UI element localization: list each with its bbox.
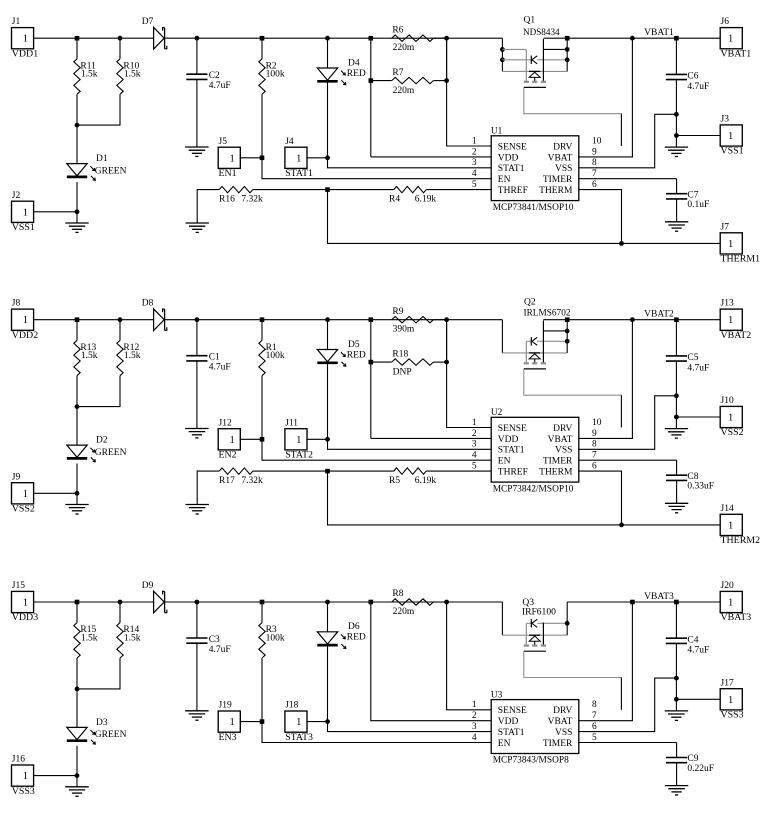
- junction: [674, 112, 679, 117]
- connector J19 (EN3): [218, 701, 262, 743]
- wire VSS from U1 pin 8: [579, 114, 677, 168]
- svg-text:4.7uF: 4.7uF: [687, 646, 709, 656]
- svg-text:1: 1: [23, 771, 28, 782]
- IC U1 MCP73841/MSOP10: [491, 127, 579, 213]
- wire SENSE: [447, 38, 492, 146]
- svg-text:1: 1: [296, 435, 301, 446]
- resistor R15 1.5k: [74, 602, 98, 689]
- U1 pin 4: [472, 169, 477, 179]
- svg-text:R5: R5: [389, 476, 400, 486]
- svg-text:J8: J8: [12, 299, 21, 309]
- resistor R10 1.5k: [77, 38, 141, 125]
- LED D1 GREEN: [67, 125, 127, 212]
- junction: [325, 187, 330, 192]
- connector J17 (VSS3): [676, 678, 743, 720]
- wire: [165, 37, 503, 39]
- svg-text:1: 1: [728, 34, 733, 45]
- svg-text:EN: EN: [498, 175, 511, 185]
- svg-text:THREF: THREF: [498, 186, 528, 196]
- ground: [185, 429, 208, 438]
- resistor R13 1.5k: [74, 320, 98, 407]
- svg-text:220m: 220m: [393, 607, 415, 617]
- junction: [444, 600, 449, 605]
- ground: [665, 699, 688, 720]
- svg-text:1: 1: [229, 435, 234, 446]
- svg-text:C7: C7: [687, 190, 698, 200]
- ground: [65, 493, 88, 514]
- capacitor C3 4.7uF: [186, 602, 230, 711]
- junction: [260, 437, 265, 442]
- svg-text:8: 8: [592, 700, 597, 710]
- svg-text:D5: D5: [348, 340, 360, 350]
- svg-text:J18: J18: [285, 701, 298, 711]
- svg-text:9: 9: [592, 429, 597, 439]
- svg-text:220m: 220m: [393, 86, 415, 96]
- svg-text:THERM: THERM: [539, 468, 573, 478]
- svg-text:100k: 100k: [266, 351, 285, 361]
- svg-text:10: 10: [592, 136, 602, 146]
- ground: [65, 212, 88, 233]
- svg-text:VBAT: VBAT: [548, 717, 573, 727]
- resistor R3 100k: [259, 602, 285, 722]
- U2 pin 5: [472, 462, 477, 472]
- svg-text:1: 1: [229, 153, 234, 164]
- U3 pin 1: [472, 700, 477, 710]
- svg-text:5: 5: [472, 462, 477, 472]
- svg-text:VSS2: VSS2: [721, 427, 744, 438]
- junction: [260, 600, 265, 605]
- junction: [369, 360, 374, 365]
- wire input bus: [77, 319, 154, 321]
- U2 pin 8: [592, 440, 597, 450]
- svg-text:C2: C2: [209, 71, 220, 81]
- svg-text:1.5k: 1.5k: [81, 351, 98, 361]
- wire EN: [262, 158, 491, 179]
- junction: [325, 155, 330, 160]
- U1 pin 8: [592, 158, 597, 168]
- svg-text:R4: R4: [389, 194, 400, 204]
- connector J11 (STAT2): [285, 418, 328, 460]
- U3 pin 5: [592, 733, 597, 743]
- svg-text:2: 2: [472, 429, 477, 439]
- svg-text:U2: U2: [491, 408, 503, 418]
- capacitor C6 4.7uF: [666, 38, 710, 135]
- svg-text:3: 3: [472, 158, 477, 168]
- wire DRV to U2 pin 10: [620, 395, 622, 427]
- svg-text:5: 5: [472, 180, 477, 190]
- svg-text:DRV: DRV: [553, 424, 572, 434]
- svg-text:4.7uF: 4.7uF: [687, 82, 709, 92]
- svg-text:STAT1: STAT1: [498, 728, 525, 738]
- LED D6 RED: [317, 602, 366, 722]
- svg-text:1: 1: [23, 34, 28, 45]
- svg-text:C4: C4: [687, 635, 698, 645]
- svg-text:4: 4: [472, 169, 477, 179]
- junction: [674, 600, 679, 605]
- svg-text:D8: D8: [142, 299, 154, 309]
- junction: [325, 600, 330, 605]
- U1 pin 2: [472, 147, 477, 157]
- junction: [444, 78, 449, 83]
- junction: [619, 523, 624, 528]
- svg-text:4.7uF: 4.7uF: [209, 645, 231, 655]
- wire input bus: [77, 601, 154, 603]
- svg-text:390m: 390m: [393, 325, 415, 335]
- U2 pin 10: [592, 418, 602, 428]
- junction: [674, 36, 679, 41]
- junction: [630, 317, 635, 322]
- ground: [186, 223, 209, 232]
- svg-text:6.19k: 6.19k: [415, 476, 437, 486]
- svg-text:1: 1: [728, 520, 733, 531]
- junction: [565, 317, 570, 322]
- svg-text:VDD: VDD: [498, 717, 519, 727]
- svg-text:6: 6: [592, 180, 597, 190]
- ground: [665, 786, 688, 795]
- junction: [630, 600, 635, 605]
- diode D7 (Schottky): [142, 17, 167, 49]
- svg-text:VSS: VSS: [555, 446, 572, 456]
- svg-text:J12: J12: [219, 418, 232, 428]
- wire THERM: [328, 190, 721, 244]
- svg-text:SENSE: SENSE: [498, 142, 527, 152]
- svg-text:J7: J7: [721, 222, 730, 232]
- svg-text:0.22uF: 0.22uF: [687, 764, 714, 774]
- LED D5 RED: [317, 320, 366, 440]
- svg-text:IRLMS6702: IRLMS6702: [524, 309, 571, 319]
- connector J5 (EN1): [218, 137, 262, 179]
- resistor R18 DNP: [371, 320, 447, 378]
- U3 pin 8: [592, 700, 597, 710]
- svg-text:SENSE: SENSE: [498, 706, 527, 716]
- svg-text:VBAT: VBAT: [548, 435, 573, 445]
- svg-text:8: 8: [592, 440, 597, 450]
- connector J12 (EN2): [218, 418, 262, 460]
- svg-text:EN: EN: [498, 739, 511, 749]
- svg-text:R6: R6: [392, 25, 403, 35]
- LED D2 GREEN: [67, 407, 127, 494]
- IC U2 MCP73842/MSOP10: [491, 408, 579, 494]
- junction: [260, 317, 265, 322]
- junction: [325, 317, 330, 322]
- junction: [674, 393, 679, 398]
- junction: [260, 719, 265, 724]
- svg-text:J14: J14: [721, 504, 734, 514]
- svg-text:U3: U3: [491, 690, 503, 700]
- capacitor C8 0.33uF: [579, 460, 714, 503]
- svg-text:U1: U1: [491, 127, 503, 137]
- junction: [325, 719, 330, 724]
- svg-text:1: 1: [728, 413, 733, 424]
- svg-text:D2: D2: [96, 436, 108, 446]
- transistor Q2 IRLMS6702: [502, 298, 621, 396]
- ground: [185, 711, 208, 720]
- svg-text:1: 1: [472, 136, 477, 146]
- svg-text:RED: RED: [347, 633, 366, 643]
- U2 pin 9: [592, 429, 597, 439]
- svg-text:THERM2: THERM2: [721, 535, 761, 546]
- svg-text:VDD: VDD: [498, 153, 519, 163]
- wire VDD: [371, 602, 491, 721]
- ground: [65, 776, 88, 797]
- svg-text:1: 1: [23, 207, 28, 218]
- svg-text:STAT1: STAT1: [498, 164, 525, 174]
- svg-text:THERM: THERM: [539, 186, 573, 196]
- junction: [260, 156, 265, 161]
- U1 pin 1: [472, 136, 477, 146]
- svg-text:J1: J1: [12, 17, 21, 27]
- svg-text:VSS2: VSS2: [12, 504, 35, 515]
- svg-text:R8: R8: [392, 589, 403, 599]
- ground: [186, 505, 209, 515]
- wire STAT1: [328, 439, 492, 449]
- junction: [674, 317, 679, 322]
- junction: [325, 437, 330, 442]
- svg-text:GREEN: GREEN: [95, 166, 127, 176]
- svg-text:TIMER: TIMER: [543, 739, 573, 749]
- junction: [195, 600, 200, 605]
- svg-text:7.32k: 7.32k: [241, 194, 263, 204]
- junction: [565, 36, 570, 41]
- ground: [665, 417, 688, 438]
- svg-text:VSS: VSS: [555, 728, 572, 738]
- U1 pin 10: [592, 136, 602, 146]
- transistor Q3 IRF6100: [502, 598, 621, 678]
- svg-text:1: 1: [296, 717, 301, 728]
- svg-text:1: 1: [728, 695, 733, 706]
- svg-text:J5: J5: [219, 137, 228, 147]
- transistor Q1 NDS8434: [500, 16, 621, 114]
- junction: [444, 360, 449, 365]
- capacitor C5 4.7uF: [666, 320, 710, 417]
- ground: [665, 503, 688, 513]
- junction: [118, 600, 123, 605]
- U1 pin 3: [472, 158, 477, 168]
- svg-text:SENSE: SENSE: [498, 424, 527, 434]
- ground: [665, 222, 688, 231]
- diode D9 (Schottky): [142, 581, 167, 613]
- svg-text:J13: J13: [721, 299, 734, 309]
- capacitor C4 4.7uF: [666, 602, 710, 699]
- svg-text:VSS1: VSS1: [721, 146, 744, 157]
- junction: [75, 317, 80, 322]
- svg-text:4.7uF: 4.7uF: [687, 363, 709, 373]
- svg-text:VDD: VDD: [498, 435, 519, 445]
- junction: [325, 36, 330, 41]
- junction: [75, 687, 80, 692]
- resistor R12 1.5k: [77, 320, 141, 407]
- U1 pin 9: [592, 147, 597, 157]
- connector J4 (STAT1): [285, 137, 328, 179]
- junction: [195, 36, 200, 41]
- svg-text:1: 1: [296, 153, 301, 164]
- wire VSS from U2 pin 8: [579, 396, 677, 450]
- svg-text:VSS1: VSS1: [12, 222, 35, 233]
- junction: [674, 697, 679, 702]
- wire DRV to U1 pin 10: [620, 114, 622, 146]
- U2 pin 2: [472, 429, 477, 439]
- svg-text:D9: D9: [142, 581, 154, 591]
- connector J16 (VSS3): [12, 755, 78, 797]
- resistor R1 100k: [259, 320, 285, 440]
- svg-text:8: 8: [592, 158, 597, 168]
- svg-text:MCP73841/MSOP10: MCP73841/MSOP10: [493, 203, 574, 213]
- svg-text:1: 1: [728, 598, 733, 609]
- U3 pin 7: [592, 711, 597, 721]
- wire VBAT1 net: [543, 28, 720, 38]
- svg-text:100k: 100k: [266, 633, 285, 643]
- svg-text:VSS: VSS: [555, 164, 572, 174]
- U2 pin 7: [592, 451, 597, 461]
- junction: [674, 133, 679, 138]
- junction: [75, 36, 80, 41]
- svg-text:VBAT: VBAT: [548, 153, 573, 163]
- connector J9 (VSS2): [12, 472, 78, 514]
- U1 pin 5: [472, 180, 477, 190]
- svg-text:VBAT2: VBAT2: [644, 310, 674, 320]
- wire DRV to U3 pin 8: [620, 678, 622, 710]
- resistor R6 220m: [392, 25, 447, 53]
- wire VBAT2 net: [543, 310, 720, 320]
- connector J3 (VSS1): [676, 115, 743, 157]
- svg-text:VBAT3: VBAT3: [721, 612, 752, 623]
- svg-text:J10: J10: [721, 396, 734, 406]
- junction: [260, 36, 265, 41]
- svg-text:IRF6100: IRF6100: [522, 608, 556, 618]
- svg-text:THERM1: THERM1: [721, 254, 761, 265]
- svg-text:J9: J9: [12, 472, 21, 482]
- U2 pin 6: [592, 462, 597, 472]
- junction: [118, 36, 123, 41]
- junction: [444, 36, 449, 41]
- svg-text:VDD1: VDD1: [12, 48, 38, 59]
- svg-text:1.5k: 1.5k: [81, 70, 98, 80]
- connector J7 (THERM1): [720, 222, 760, 264]
- svg-text:4.7uF: 4.7uF: [209, 363, 231, 373]
- connector J8 (VDD2): [12, 299, 78, 341]
- junction: [75, 404, 80, 409]
- svg-text:1: 1: [472, 700, 477, 710]
- svg-text:C9: C9: [687, 754, 698, 764]
- resistor R17 7.32k: [197, 468, 327, 505]
- svg-text:6.19k: 6.19k: [415, 194, 437, 204]
- svg-text:J6: J6: [721, 17, 730, 27]
- svg-text:EN3: EN3: [219, 732, 237, 743]
- svg-text:9: 9: [592, 147, 597, 157]
- wire VSS from U3 pin 6: [579, 678, 677, 732]
- svg-text:TIMER: TIMER: [543, 175, 573, 185]
- U1 pin 6: [592, 180, 597, 190]
- svg-text:6: 6: [592, 722, 597, 732]
- wire SENSE: [447, 602, 492, 710]
- junction: [118, 317, 123, 322]
- svg-text:Q1: Q1: [524, 16, 536, 26]
- resistor R8 220m: [392, 589, 447, 617]
- U2 pin 1: [472, 418, 477, 428]
- U3 pin 4: [472, 733, 477, 743]
- junction: [444, 317, 449, 322]
- svg-text:GREEN: GREEN: [95, 730, 127, 740]
- svg-text:THREF: THREF: [498, 468, 528, 478]
- svg-text:J20: J20: [721, 581, 734, 591]
- wire: [165, 319, 503, 321]
- svg-text:7: 7: [592, 451, 597, 461]
- resistor R14 1.5k: [77, 602, 141, 689]
- svg-text:VDD3: VDD3: [12, 612, 38, 623]
- U3 pin 3: [472, 722, 477, 732]
- svg-text:NDS8434: NDS8434: [523, 28, 560, 38]
- svg-text:1: 1: [728, 315, 733, 326]
- svg-text:VDD2: VDD2: [12, 330, 38, 341]
- wire THERM: [328, 471, 721, 525]
- junction: [325, 469, 330, 474]
- svg-text:J15: J15: [12, 581, 25, 591]
- svg-text:R9: R9: [392, 307, 403, 317]
- resistor R11 1.5k: [74, 38, 98, 125]
- connector J15 (VDD3): [12, 581, 78, 623]
- U3 pin 6: [592, 722, 597, 732]
- svg-text:C3: C3: [209, 635, 220, 645]
- svg-text:STAT1: STAT1: [285, 168, 313, 179]
- svg-text:DNP: DNP: [393, 367, 412, 377]
- svg-text:4: 4: [472, 733, 477, 743]
- wire: [165, 601, 503, 603]
- ground: [665, 136, 688, 157]
- svg-text:0.1uF: 0.1uF: [687, 200, 709, 210]
- resistor R4 6.19k: [328, 186, 492, 204]
- svg-text:0.33uF: 0.33uF: [687, 482, 714, 492]
- capacitor C9 0.22uF: [579, 743, 714, 786]
- wire EN: [262, 439, 491, 460]
- connector J10 (VSS2): [676, 396, 743, 438]
- svg-text:4: 4: [472, 451, 477, 461]
- svg-text:MCP73842/MSOP10: MCP73842/MSOP10: [493, 484, 574, 494]
- wire SENSE: [447, 320, 492, 428]
- svg-text:D3: D3: [96, 718, 108, 728]
- svg-text:MCP73843/MSOP8: MCP73843/MSOP8: [493, 756, 569, 766]
- svg-text:2: 2: [472, 147, 477, 157]
- capacitor C7 0.1uF: [579, 179, 710, 222]
- svg-text:7: 7: [592, 711, 597, 721]
- LED D3 GREEN: [67, 689, 127, 776]
- svg-text:EN: EN: [498, 457, 511, 467]
- connector J6 (VBAT1): [720, 17, 751, 59]
- svg-text:220m: 220m: [393, 43, 415, 53]
- ground: [185, 147, 208, 156]
- resistor R2 100k: [259, 38, 285, 158]
- junction: [630, 36, 635, 41]
- junction: [619, 241, 624, 246]
- svg-text:1: 1: [23, 489, 28, 500]
- svg-text:VBAT1: VBAT1: [721, 48, 752, 59]
- svg-text:R18: R18: [392, 350, 408, 360]
- wire input bus: [77, 37, 154, 39]
- svg-text:7: 7: [592, 169, 597, 179]
- svg-text:1.5k: 1.5k: [81, 633, 98, 643]
- svg-text:1: 1: [23, 598, 28, 609]
- svg-text:2: 2: [472, 711, 477, 721]
- svg-text:J2: J2: [12, 191, 21, 201]
- svg-text:4.7uF: 4.7uF: [209, 81, 231, 91]
- svg-text:1: 1: [728, 239, 733, 250]
- svg-text:RED: RED: [347, 69, 366, 79]
- U2 pin 4: [472, 451, 477, 461]
- U2 pin 3: [472, 440, 477, 450]
- svg-text:100k: 100k: [266, 70, 285, 80]
- junction: [369, 36, 374, 41]
- svg-text:C8: C8: [687, 472, 698, 482]
- svg-text:R7: R7: [392, 68, 403, 78]
